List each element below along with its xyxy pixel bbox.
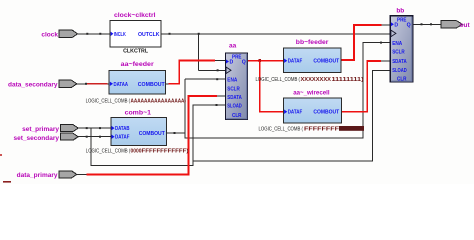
svg-text:LOGIC_CELL_COMB (: LOGIC_CELL_COMB (: [259, 126, 304, 132]
junction dots comb~1 out: [174, 42, 383, 134]
svg-text:SDATA: SDATA: [392, 59, 407, 65]
svg-text:COMBOUT: COMBOUT: [138, 82, 166, 88]
svg-text:INCLK: INCLK: [114, 32, 126, 38]
svg-text:data_secondary: data_secondary: [8, 82, 58, 89]
svg-text:ENA: ENA: [392, 41, 402, 47]
buffer clock~clkctrl: [110, 20, 161, 47]
junction dots clock net: [169, 33, 219, 72]
wire branch aa Q to aa~_wirecell DATAF (highlighted): [260, 61, 284, 112]
wire aa~feeder COMBOUT to aa D (highlighted): [166, 60, 226, 83]
wire data_primary to aa SDATA (highlighted): [77, 96, 226, 174]
svg-text:DATAB: DATAB: [115, 126, 130, 132]
output pin out: [441, 21, 463, 28]
svg-text:DATAF: DATAF: [288, 110, 303, 116]
wire set_primary to comb~1 DATAB: [78, 127, 111, 129]
svg-text:PRE: PRE: [397, 17, 407, 23]
cell comb~1: [111, 117, 167, 145]
svg-text:D: D: [230, 60, 234, 66]
wire aa Q to bb~feeder DATAF (highlighted): [248, 59, 284, 62]
svg-text:COMBOUT: COMBOUT: [313, 59, 340, 65]
svg-text:COMBOUT: COMBOUT: [139, 131, 166, 137]
input pin clock: [59, 30, 78, 38]
svg-text:FFFFFFFF: FFFFFFFF: [304, 126, 339, 132]
svg-text:AAAAAAAAAAAAAAAA): AAAAAAAAAAAAAAAA): [131, 98, 187, 104]
svg-text:comb~1: comb~1: [125, 110, 152, 117]
svg-text:Q: Q: [242, 60, 246, 66]
svg-text:DATAA: DATAA: [114, 82, 129, 88]
svg-text:DATAF: DATAF: [288, 59, 303, 65]
svg-text:SLOAD: SLOAD: [392, 68, 407, 74]
artifact red speck left edge: [0, 154, 2, 156]
flip-flop aa: [226, 53, 248, 120]
svg-text:DATAF: DATAF: [115, 135, 130, 141]
svg-text:LOGIC_CELL_COMB (: LOGIC_CELL_COMB (: [86, 148, 131, 154]
wire bb~feeder COMBOUT to bb D (highlighted): [341, 25, 391, 60]
svg-text:bb~feeder: bb~feeder: [296, 39, 329, 46]
svg-text:PRE: PRE: [232, 55, 242, 61]
svg-text:SLOAD: SLOAD: [227, 104, 242, 110]
svg-text:CLR: CLR: [232, 113, 242, 119]
svg-text:aa: aa: [229, 43, 237, 50]
svg-text:LOGIC_CELL_COMB (: LOGIC_CELL_COMB (: [256, 77, 301, 83]
svg-text:out: out: [460, 22, 471, 29]
svg-text:clock~clkctrl: clock~clkctrl: [114, 12, 156, 19]
svg-text:11111111): 11111111): [332, 77, 364, 83]
svg-text:OUTCLK: OUTCLK: [138, 32, 160, 38]
svg-text:CLR: CLR: [397, 76, 407, 82]
artifact red dash bottom left: [3, 181, 11, 183]
wire clock net from OUTCLK to bb clock: [161, 34, 390, 71]
svg-text:SDATA: SDATA: [227, 95, 242, 101]
svg-text:set_primary: set_primary: [22, 126, 59, 133]
junction dots out net: [421, 23, 433, 25]
input pin set_secondary: [60, 133, 78, 140]
junction dot aa SLOAD: [216, 104, 218, 106]
svg-text:FFFFFFFFFFFF): FFFFFFFFFFFF): [142, 148, 189, 154]
cell aa~feeder: [109, 71, 166, 95]
input pin data_primary: [59, 171, 77, 178]
svg-text:bb: bb: [396, 8, 404, 15]
svg-text:SCLR: SCLR: [392, 50, 405, 56]
svg-text:data_primary: data_primary: [17, 172, 58, 179]
wire clock input net: [78, 33, 110, 35]
wire bb Q to out pin: [413, 23, 441, 25]
svg-text:aa~feeder: aa~feeder: [121, 61, 154, 68]
svg-text:CLKCTRL: CLKCTRL: [123, 49, 148, 55]
svg-text:Q: Q: [407, 22, 411, 28]
cell bb~feeder: [284, 48, 341, 72]
selected mask blob aa~_wirecell: [339, 126, 364, 131]
svg-text:clock: clock: [41, 32, 58, 39]
junction dots set_primary: [86, 127, 101, 129]
junction dot data_secondary: [85, 83, 87, 85]
svg-text:0000: 0000: [131, 148, 142, 154]
junction dots set_secondary: [86, 136, 101, 138]
svg-text:set_secondary: set_secondary: [13, 135, 59, 142]
wire set_secondary to comb~1 DATAF: [78, 136, 111, 138]
svg-text:COMBOUT: COMBOUT: [313, 110, 340, 116]
cell aa~_wirecell: [284, 98, 342, 123]
svg-text:D: D: [394, 22, 398, 28]
input pin set_primary: [60, 125, 78, 132]
wire aa~_wirecell COMBOUT to bb SDATA (highlighted): [341, 61, 390, 112]
input pin data_secondary: [59, 80, 77, 87]
svg-text:XXXXXXXX: XXXXXXXX: [301, 77, 332, 83]
svg-text:LOGIC_CELL_COMB (: LOGIC_CELL_COMB (: [86, 98, 131, 104]
wire set_primary branch to sload nets: [91, 70, 390, 165]
flip-flop bb: [390, 16, 412, 83]
svg-text:ENA: ENA: [227, 78, 237, 84]
wire comb~1 COMBOUT to aa ENA and bb ENA: [167, 43, 391, 138]
svg-text:SCLR: SCLR: [227, 86, 240, 92]
junction dots clock input: [86, 33, 101, 35]
wire data_secondary to aa~feeder DATAA: [77, 83, 110, 85]
svg-text:aa~_wirecell: aa~_wirecell: [293, 89, 330, 96]
